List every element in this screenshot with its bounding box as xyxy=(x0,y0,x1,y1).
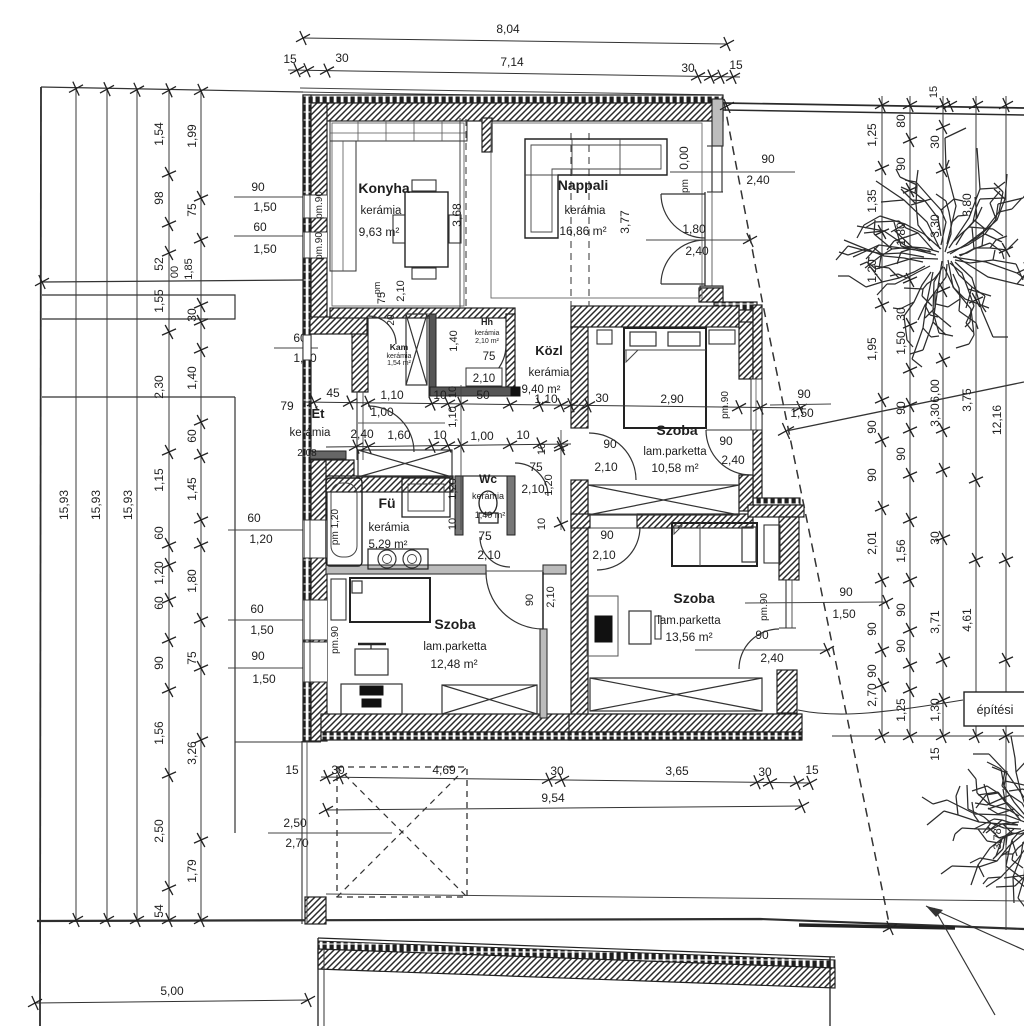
svg-text:1,55: 1,55 xyxy=(152,289,166,313)
et/fu wall band xyxy=(326,476,453,492)
neighbour house right edge xyxy=(829,957,831,1026)
chain y446 xyxy=(326,444,571,447)
hh right wall xyxy=(506,314,515,387)
et wardrobe xbox xyxy=(358,450,452,477)
top wall hatch xyxy=(303,103,723,121)
door et xyxy=(368,406,414,452)
wc toilet xyxy=(479,491,497,515)
konyha counter xyxy=(330,121,467,141)
svg-text:1,40: 1,40 xyxy=(185,366,199,390)
svg-text:90: 90 xyxy=(251,180,265,194)
bottom-left wall stub at boundary xyxy=(305,897,326,924)
svg-text:15: 15 xyxy=(805,763,819,777)
left wall window et thin xyxy=(303,335,311,360)
svg-text:3,68: 3,68 xyxy=(450,203,464,227)
left wall windows xyxy=(303,195,327,218)
garden wall line y282 xyxy=(42,280,303,282)
svg-text:lam.parketta: lam.parketta xyxy=(643,446,707,458)
door kam xyxy=(368,316,396,344)
svg-text:2,10: 2,10 xyxy=(521,482,545,496)
szoba3 desk xyxy=(587,596,618,656)
svg-text:60: 60 xyxy=(250,602,264,616)
svg-text:2,08: 2,08 xyxy=(297,448,317,459)
nappali window right xyxy=(711,146,713,192)
svg-text:75: 75 xyxy=(185,651,199,665)
svg-text:75: 75 xyxy=(483,351,496,363)
szoba3 bed fold mark xyxy=(674,526,682,534)
dim line 8,04 xyxy=(303,38,727,44)
nappali door recess verticals xyxy=(704,192,706,286)
corridor wall x571 upper xyxy=(571,327,588,428)
main chain y400 xyxy=(303,402,803,408)
svg-text:kerámia: kerámia xyxy=(475,330,500,337)
svg-text:15: 15 xyxy=(928,747,942,761)
svg-text:2,70: 2,70 xyxy=(285,836,309,850)
svg-text:60: 60 xyxy=(247,511,261,525)
svg-text:2,40: 2,40 xyxy=(721,453,745,467)
szoba1 bottom wall hatch right part xyxy=(637,514,753,528)
svg-text:90: 90 xyxy=(894,447,908,461)
retaining bar bottom right xyxy=(799,925,955,928)
second line bottom right xyxy=(934,908,995,1015)
svg-text:kerámia: kerámia xyxy=(290,427,332,439)
site boundary top-right double line xyxy=(723,103,1024,108)
svg-text:3,26: 3,26 xyxy=(185,741,199,765)
dim 90/1,50 far right xyxy=(745,602,888,603)
svg-text:75: 75 xyxy=(185,203,199,217)
svg-text:3,75: 3,75 xyxy=(960,388,974,412)
svg-text:2,10: 2,10 xyxy=(594,460,618,474)
svg-text:1,80: 1,80 xyxy=(185,569,199,593)
east wing window right xyxy=(751,379,762,430)
south room right wall upper xyxy=(779,517,799,580)
dim 90/1,50 szoba2 xyxy=(228,667,318,669)
svg-text:2,40: 2,40 xyxy=(746,173,770,187)
dashed garage rect xyxy=(337,767,467,897)
szoba3 nightstand xyxy=(764,525,780,563)
door hh xyxy=(466,345,506,385)
corridor wall x571 lower xyxy=(571,480,588,718)
svg-text:Hh: Hh xyxy=(481,317,493,327)
svg-text:3,78: 3,78 xyxy=(992,828,1004,849)
svg-text:54: 54 xyxy=(152,904,166,918)
svg-text:2,40: 2,40 xyxy=(350,427,374,441)
tree 2 xyxy=(922,736,1024,914)
dim line 7,14 chain xyxy=(288,70,740,77)
svg-text:10: 10 xyxy=(516,428,530,442)
szoba1 wardrobe xbox xyxy=(588,485,739,515)
svg-text:Nappali: Nappali xyxy=(558,177,609,193)
vanity with two basins xyxy=(368,549,428,569)
kitchen chairs xyxy=(412,180,436,191)
svg-text:pm.90: pm.90 xyxy=(759,593,770,621)
left wall hatch lower xyxy=(311,460,327,741)
svg-text:pm.90: pm.90 xyxy=(314,232,325,260)
kitchen table xyxy=(405,192,448,267)
svg-text:1,20: 1,20 xyxy=(249,532,273,546)
svg-text:00: 00 xyxy=(169,266,181,278)
svg-text:1,50: 1,50 xyxy=(253,200,277,214)
right chains xyxy=(881,96,883,737)
svg-text:5,00: 5,00 xyxy=(160,984,184,998)
svg-text:2,10: 2,10 xyxy=(477,548,501,562)
svg-text:90: 90 xyxy=(894,639,908,653)
svg-text:15,93: 15,93 xyxy=(89,490,103,520)
svg-text:8,04: 8,04 xyxy=(496,22,520,36)
ticks chain x169 xyxy=(162,167,176,181)
svg-text:90: 90 xyxy=(603,437,617,451)
terrain line lower xyxy=(326,894,1024,901)
eaves double line top xyxy=(300,88,723,95)
svg-text:3,65: 3,65 xyxy=(665,764,689,778)
fu/szoba2 thin wall xyxy=(326,565,486,574)
svg-text:10: 10 xyxy=(433,388,447,402)
svg-text:1,45: 1,45 xyxy=(185,477,199,501)
step wall brick row xyxy=(753,498,800,505)
svg-text:1,20: 1,20 xyxy=(447,478,459,499)
szoba1 double bed xyxy=(624,328,706,428)
szoba2 wardrobe xbox xyxy=(442,685,537,714)
site boundary bottom xyxy=(37,919,1024,929)
svg-text:3,71: 3,71 xyxy=(928,610,942,634)
east wing right wall below door xyxy=(739,475,753,511)
svg-text:kerámia: kerámia xyxy=(369,522,411,534)
svg-text:90: 90 xyxy=(524,594,536,606)
svg-text:Szoba: Szoba xyxy=(673,590,714,606)
svg-text:pm: pm xyxy=(680,179,691,193)
svg-text:30: 30 xyxy=(331,763,345,777)
svg-text:1,54 m²: 1,54 m² xyxy=(387,360,411,367)
nappali room outline xyxy=(491,123,702,298)
svg-text:90: 90 xyxy=(719,434,733,448)
svg-text:1,56: 1,56 xyxy=(152,721,166,745)
epitesi vonal box xyxy=(964,692,1024,726)
left wall brick strip xyxy=(303,95,311,741)
svg-text:pm.90: pm.90 xyxy=(330,626,341,654)
svg-text:12,16: 12,16 xyxy=(990,405,1004,435)
wall nappali/szoba1 hatch xyxy=(571,306,739,327)
dim 5,00 xyxy=(35,1000,308,1003)
szoba2 table with monitor xyxy=(355,649,388,675)
svg-text:9,54: 9,54 xyxy=(541,791,565,805)
door nappali balcony lower leaf xyxy=(661,283,705,285)
east wing top corner hatch xyxy=(699,288,723,302)
svg-text:pm: pm xyxy=(372,282,382,295)
kam wall vertical xyxy=(352,318,368,392)
south room right window xyxy=(779,580,796,628)
kam/hh divider dark wall xyxy=(429,314,436,396)
svg-text:építési: építési xyxy=(977,703,1014,717)
svg-text:1,10: 1,10 xyxy=(447,406,459,427)
dim 60/1,20 fu xyxy=(228,529,318,531)
svg-text:kerámia: kerámia xyxy=(387,353,412,360)
svg-text:1,54: 1,54 xyxy=(152,122,166,146)
svg-text:1,85: 1,85 xyxy=(183,258,195,279)
tree 1 xyxy=(836,128,1024,367)
east wing top hatch xyxy=(705,310,753,323)
svg-text:90: 90 xyxy=(152,656,166,670)
svg-text:1,50: 1,50 xyxy=(790,406,814,420)
wc top lintel xyxy=(455,475,515,477)
svg-text:60: 60 xyxy=(253,220,267,234)
dim 90/1,50 left xyxy=(234,196,303,198)
svg-text:9,63 m²: 9,63 m² xyxy=(359,225,400,239)
svg-text:Szoba: Szoba xyxy=(434,616,475,632)
ticks chain x201 xyxy=(194,191,208,205)
svg-text:2,10: 2,10 xyxy=(592,548,616,562)
door szoba3 from corridor xyxy=(597,527,640,570)
svg-text:pm.90: pm.90 xyxy=(314,191,325,219)
bottom wall hatch xyxy=(321,714,801,732)
svg-text:pm.90: pm.90 xyxy=(720,391,731,419)
szoba2 desk with printer xyxy=(341,684,402,714)
svg-text:90: 90 xyxy=(797,387,811,401)
szoba3 door lintel line xyxy=(590,513,637,515)
svg-text:3,80: 3,80 xyxy=(960,193,974,217)
svg-text:30: 30 xyxy=(550,764,564,778)
svg-text:15: 15 xyxy=(283,52,297,66)
svg-text:10: 10 xyxy=(447,518,459,530)
svg-text:7,14: 7,14 xyxy=(500,55,524,69)
svg-text:2,10: 2,10 xyxy=(545,586,557,607)
svg-text:13,56 m²: 13,56 m² xyxy=(665,630,712,644)
black flue square xyxy=(511,387,520,396)
svg-text:15,93: 15,93 xyxy=(57,490,71,520)
svg-text:80: 80 xyxy=(894,114,908,128)
svg-text:2,90: 2,90 xyxy=(660,392,684,406)
neighbour garage rectangle xyxy=(42,295,235,319)
svg-text:1,10: 1,10 xyxy=(534,392,558,406)
svg-text:90: 90 xyxy=(894,603,908,617)
svg-text:1,20: 1,20 xyxy=(152,561,166,585)
bottom wall brick strip xyxy=(321,732,801,740)
svg-text:1,15: 1,15 xyxy=(152,468,166,492)
ticks right chains xyxy=(875,161,889,175)
bathtub xyxy=(326,478,362,566)
connector line to house bottom xyxy=(235,741,321,743)
svg-text:1,79: 1,79 xyxy=(185,859,199,883)
top wall brick strip xyxy=(303,95,723,103)
south bottom wall hatch xyxy=(569,714,802,732)
svg-text:Konyha: Konyha xyxy=(358,180,410,196)
neighbour house top line xyxy=(318,938,835,957)
svg-text:1,30: 1,30 xyxy=(928,698,942,722)
svg-text:50: 50 xyxy=(476,388,490,402)
svg-text:1,50: 1,50 xyxy=(250,623,274,637)
arrow line bottom right xyxy=(926,906,1024,950)
hh bottom dark wall xyxy=(430,387,511,396)
svg-text:Wc: Wc xyxy=(479,472,497,486)
wc right wall xyxy=(507,476,515,535)
wall stub konyha/nappali xyxy=(482,118,492,152)
svg-text:2,10: 2,10 xyxy=(473,373,495,385)
leader curve to epitesi box xyxy=(798,700,963,714)
svg-text:90: 90 xyxy=(894,157,908,171)
tick near building top right corner xyxy=(720,99,734,113)
svg-text:20: 20 xyxy=(386,314,397,326)
right chain top ticks xyxy=(875,98,889,112)
svg-text:Szoba: Szoba xyxy=(656,422,697,438)
south room corner hatch xyxy=(777,670,797,713)
svg-text:1,99: 1,99 xyxy=(185,124,199,148)
svg-text:1,50: 1,50 xyxy=(252,672,276,686)
svg-text:1,80: 1,80 xyxy=(682,222,706,236)
szoba2/corridor thin wall xyxy=(540,629,547,718)
svg-text:30: 30 xyxy=(185,308,199,322)
svg-text:79: 79 xyxy=(280,399,294,413)
svg-text:4,61: 4,61 xyxy=(960,608,974,632)
svg-text:16,86 m²: 16,86 m² xyxy=(559,224,606,238)
site boundary top-left xyxy=(41,87,303,92)
site boundary left xyxy=(40,87,41,1026)
boxed 2,10 hh xyxy=(466,368,502,386)
garden line y397 xyxy=(42,396,235,398)
svg-text:30: 30 xyxy=(681,61,695,75)
svg-text:2,30: 2,30 xyxy=(152,375,166,399)
svg-text:6,00: 6,00 xyxy=(928,379,942,403)
right wall nappali grey xyxy=(712,99,723,146)
svg-text:1,60: 1,60 xyxy=(387,428,411,442)
left chain bottom ticks xyxy=(69,913,83,927)
svg-text:1,10: 1,10 xyxy=(380,388,404,402)
konyha left counter column xyxy=(330,141,356,271)
svg-text:4,69: 4,69 xyxy=(432,763,456,777)
svg-text:kerámia: kerámia xyxy=(529,367,571,379)
neighbour house brick strip xyxy=(318,941,835,968)
svg-text:kerámia: kerámia xyxy=(472,491,504,501)
szoba2 bed xyxy=(350,578,430,622)
dim 90/1,50 right of szoba1 xyxy=(770,404,831,405)
svg-text:2,40: 2,40 xyxy=(760,651,784,665)
step wall hatch xyxy=(748,505,804,517)
svg-text:Kam: Kam xyxy=(390,342,409,352)
east wing right brick strip xyxy=(753,305,762,511)
svg-text:Közl: Közl xyxy=(535,343,562,358)
svg-text:1,50: 1,50 xyxy=(253,242,277,256)
svg-text:15: 15 xyxy=(928,86,940,98)
svg-text:15: 15 xyxy=(285,763,299,777)
svg-text:30: 30 xyxy=(335,51,349,65)
right chain bottom line xyxy=(832,735,1024,737)
svg-text:Fü: Fü xyxy=(378,495,395,511)
kam/hh top wall band xyxy=(330,308,515,318)
kam shelving xbox xyxy=(406,314,427,385)
sofa nappali xyxy=(525,139,667,238)
svg-text:Ét: Ét xyxy=(312,406,326,421)
svg-text:90: 90 xyxy=(600,528,614,542)
svg-text:30: 30 xyxy=(928,531,942,545)
svg-text:1,20: 1,20 xyxy=(543,474,555,495)
svg-text:1,56: 1,56 xyxy=(894,539,908,563)
szoba3 wardrobe xbox xyxy=(590,678,762,711)
left chain lines xyxy=(75,89,77,920)
svg-text:90: 90 xyxy=(865,468,879,482)
left chain top ticks xyxy=(69,82,83,96)
et/fu corner hatch xyxy=(326,460,354,477)
svg-text:90: 90 xyxy=(761,152,775,166)
south bottom brick xyxy=(569,732,802,740)
konyha room outline xyxy=(332,123,464,306)
svg-text:3,30: 3,30 xyxy=(928,403,942,427)
east wing top brick row xyxy=(714,302,757,310)
svg-text:10: 10 xyxy=(536,518,548,530)
dim 90/2,40 right of nappali xyxy=(670,171,795,173)
svg-text:75: 75 xyxy=(478,529,492,543)
tick where dashed meets boundary xyxy=(883,921,897,935)
svg-text:30: 30 xyxy=(595,391,609,405)
svg-text:90: 90 xyxy=(251,649,265,663)
svg-text:2,50: 2,50 xyxy=(152,819,166,843)
et sideboard dark xyxy=(310,451,346,459)
vertical dim x561 xyxy=(560,430,562,530)
svg-text:12,48 m²: 12,48 m² xyxy=(430,657,477,671)
svg-text:98: 98 xyxy=(152,191,166,205)
shower tray xyxy=(402,478,450,517)
svg-text:1,95: 1,95 xyxy=(865,337,879,361)
svg-text:15: 15 xyxy=(729,58,743,72)
svg-text:90: 90 xyxy=(865,622,879,636)
svg-text:90: 90 xyxy=(865,420,879,434)
dashed beam konyha xyxy=(465,119,467,308)
vertical dim x461 xyxy=(460,385,462,530)
door nappali balcony upper leaf xyxy=(661,193,705,195)
door dim line nappali xyxy=(646,239,751,241)
svg-text:75: 75 xyxy=(529,460,543,474)
bottom dim chain xyxy=(321,777,810,783)
svg-text:1,50: 1,50 xyxy=(832,607,856,621)
dim 60/1,50 szoba2 xyxy=(228,619,318,621)
svg-text:10,58 m²: 10,58 m² xyxy=(651,461,698,475)
svg-text:3,77: 3,77 xyxy=(618,210,632,234)
svg-text:52: 52 xyxy=(152,257,166,271)
svg-text:pm 1,20: pm 1,20 xyxy=(330,508,341,545)
svg-text:1,35: 1,35 xyxy=(865,189,879,213)
svg-text:0,00: 0,00 xyxy=(677,146,691,170)
svg-text:60: 60 xyxy=(152,526,166,540)
door wc xyxy=(515,463,548,496)
nappali recess bottom wall block xyxy=(700,286,723,302)
konyha/nappali divider line xyxy=(459,118,461,308)
svg-text:90: 90 xyxy=(894,401,908,415)
east wing right wall hatch xyxy=(739,322,753,379)
konyha step wall band xyxy=(310,317,367,334)
long diagonal to tree xyxy=(786,382,1024,431)
svg-text:30: 30 xyxy=(758,765,772,779)
svg-text:90: 90 xyxy=(865,664,879,678)
wc left wall xyxy=(455,476,463,535)
door fu xyxy=(480,537,510,567)
dim 9,54 xyxy=(326,806,802,810)
door east wing terrace xyxy=(706,429,751,431)
door szoba3 right xyxy=(739,629,779,669)
left wall lower verticals to boundary xyxy=(301,741,303,924)
svg-text:60: 60 xyxy=(152,596,166,610)
svg-text:2,70: 2,70 xyxy=(865,683,879,707)
door sill line szoba2 xyxy=(486,570,543,572)
szoba1 nightstands xyxy=(597,330,612,344)
svg-text:1,25: 1,25 xyxy=(865,123,879,147)
neighbour house left edge xyxy=(317,938,319,1026)
svg-text:10: 10 xyxy=(433,428,447,442)
neighbour house hatch band xyxy=(318,949,835,988)
szoba2 nightstand xyxy=(331,579,346,620)
dashed beams nappali xyxy=(570,133,572,306)
svg-text:10: 10 xyxy=(536,443,548,455)
svg-text:45: 45 xyxy=(326,386,340,400)
svg-text:30: 30 xyxy=(928,135,942,149)
door szoba1 from corridor xyxy=(589,433,636,480)
svg-text:1,40: 1,40 xyxy=(448,330,460,351)
